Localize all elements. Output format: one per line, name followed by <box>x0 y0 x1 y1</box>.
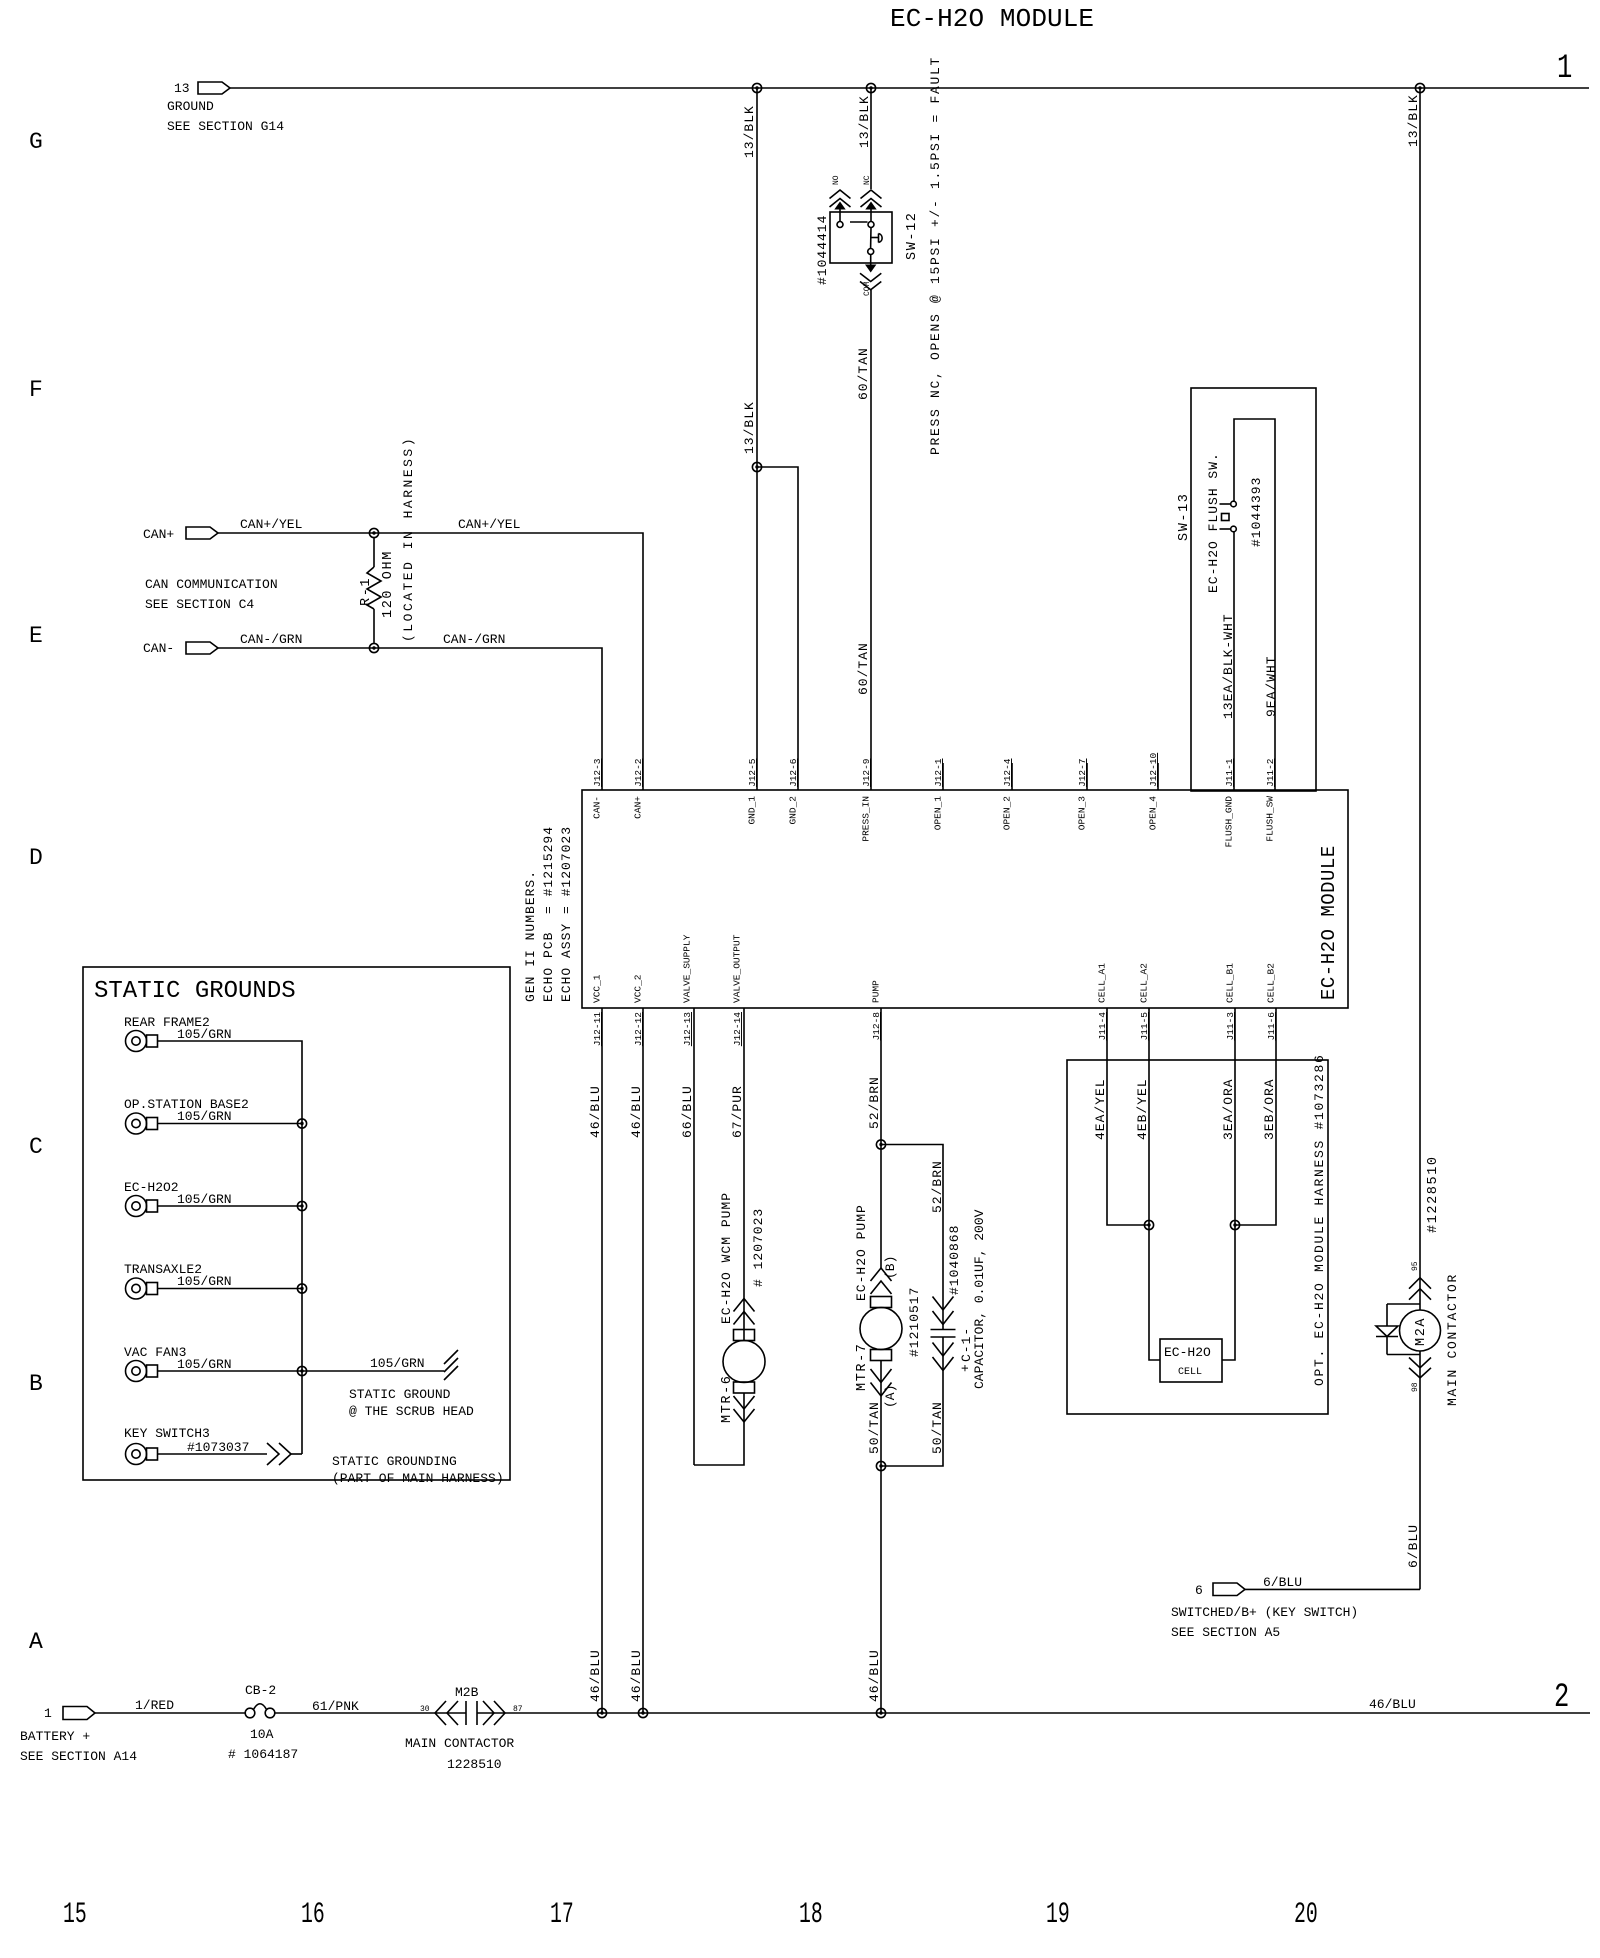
pin stub J12-7 <box>1077 758 1088 790</box>
connector flag CAN- <box>143 641 218 656</box>
svg-text:BATTERY +: BATTERY + <box>20 1729 90 1744</box>
svg-text:SEE SECTION G14: SEE SECTION G14 <box>167 119 284 134</box>
node: junction CAN+ at resistor <box>369 528 378 537</box>
svg-text:F: F <box>29 377 43 403</box>
label 98 <box>1411 1382 1420 1392</box>
wire: OP.STATION BASE2 ground <box>158 1123 303 1125</box>
svg-text:52/BRN: 52/BRN <box>867 1076 882 1129</box>
label C-1- and + <box>958 1327 974 1372</box>
pin GND_2 name <box>788 796 799 825</box>
wire: 13/BLK from top bus down to module pin J12-5 <box>756 88 758 790</box>
svg-text:EC-H2O FLUSH SW.: EC-H2O FLUSH SW. <box>1206 452 1221 593</box>
svg-text:J12-9: J12-9 <box>861 758 872 787</box>
connector chevrons below SW-12 COM <box>860 255 881 290</box>
column number 19 <box>1046 1897 1070 1931</box>
svg-text:M2B: M2B <box>455 1685 479 1700</box>
wire: TRANSAXLE2 ground <box>158 1288 303 1290</box>
svg-text:OPEN_4: OPEN_4 <box>1148 796 1159 831</box>
label EC-H2O PUMP <box>854 1204 869 1301</box>
label 3EB/ORA <box>1262 1078 1277 1140</box>
wire: 6/BLU from M2A down to key-switch feed <box>1419 1351 1421 1589</box>
label 1/RED <box>135 1698 174 1713</box>
row letter A <box>29 1629 43 1655</box>
svg-text:50/TAN: 50/TAN <box>867 1401 882 1454</box>
pin CAN- name <box>592 796 603 819</box>
page number 1 <box>1557 50 1572 88</box>
svg-text:105/GRN: 105/GRN <box>177 1274 232 1289</box>
label CAPACITOR, 0.01UF, 200V <box>972 1209 987 1389</box>
label 52/BRN (main) <box>867 1076 882 1129</box>
svg-text:3EA/ORA: 3EA/ORA <box>1221 1078 1236 1140</box>
node: junction TRANSAXLE2 <box>297 1284 306 1293</box>
label 13EA/BLK-WHT <box>1221 613 1236 719</box>
svg-text:OPEN_3: OPEN_3 <box>1077 796 1088 831</box>
svg-text:13/BLK: 13/BLK <box>742 105 757 158</box>
ring terminal KEY SWITCH3 <box>124 1426 249 1465</box>
label #1044414 <box>815 215 830 285</box>
wire: 46/BLU battery bus <box>477 1712 1590 1714</box>
label CAN-/GRN (left) <box>240 632 302 647</box>
svg-text:67/PUR: 67/PUR <box>730 1085 745 1138</box>
svg-text:MTR-7: MTR-7 <box>855 1342 870 1391</box>
wire: 1/RED battery feed <box>95 1712 245 1714</box>
diode across M2A coil <box>1376 1304 1420 1355</box>
ring terminal REAR FRAME2 <box>124 1015 232 1052</box>
note SWITCHED/B+ <box>1171 1605 1358 1640</box>
svg-text:95: 95 <box>1411 1261 1420 1271</box>
svg-text:J12-2: J12-2 <box>633 758 644 787</box>
svg-text:STATIC GROUNDING: STATIC GROUNDING <box>332 1454 457 1469</box>
svg-text:PRESS_IN: PRESS_IN <box>861 796 872 842</box>
label 52/BRN (branch) <box>930 1160 945 1213</box>
svg-text:13/BLK: 13/BLK <box>1406 94 1421 147</box>
label 46/BLU (pump wire) <box>867 1649 882 1702</box>
svg-text:SEE SECTION A14: SEE SECTION A14 <box>20 1749 137 1764</box>
svg-text:6/BLU: 6/BLU <box>1406 1524 1421 1568</box>
svg-text:J12-6: J12-6 <box>788 758 799 787</box>
svg-text:EC-H2O: EC-H2O <box>1164 1345 1211 1360</box>
wire: 60/TAN from SW-12 COM down to module pin J12-9 <box>870 290 872 790</box>
svg-text:CELL_A1: CELL_A1 <box>1097 963 1108 1003</box>
svg-text:105/GRN: 105/GRN <box>177 1192 232 1207</box>
page number 2 <box>1554 1679 1569 1717</box>
label 105/GRN (static ground run) <box>370 1356 425 1371</box>
pin J12-3 label <box>592 758 603 787</box>
pin CELL_A1 name <box>1097 963 1108 1003</box>
svg-text:46/BLU: 46/BLU <box>588 1085 603 1138</box>
pin PRESS_IN name <box>861 796 872 842</box>
svg-text:#1044414: #1044414 <box>815 215 830 285</box>
label SW-12 <box>905 211 920 260</box>
svg-text:(PART OF MAIN HARNESS): (PART OF MAIN HARNESS) <box>332 1471 504 1486</box>
svg-text:46/BLU: 46/BLU <box>629 1649 644 1702</box>
connector flag 6 (SWITCHED/B+) <box>1195 1583 1245 1598</box>
svg-text:OPEN_1: OPEN_1 <box>933 796 944 831</box>
label 120 OHM <box>381 550 396 618</box>
svg-text:EC-H2O2: EC-H2O2 <box>124 1180 179 1195</box>
svg-text:CELL_A2: CELL_A2 <box>1139 963 1150 1003</box>
wire: CAN-/GRN to module pin J12-3 <box>218 648 602 790</box>
svg-text:105/GRN: 105/GRN <box>177 1357 232 1372</box>
wire: EC-H2O2 ground <box>158 1205 303 1207</box>
svg-text:PRESS NC, OPENS @ 15PSI +/- 1.: PRESS NC, OPENS @ 15PSI +/- 1.5PSI = FAU… <box>928 56 943 455</box>
svg-text:VALVE_OUTPUT: VALVE_OUTPUT <box>732 934 743 1003</box>
svg-text:60/TAN: 60/TAN <box>856 347 871 400</box>
node: junction cell A <box>1144 1220 1153 1229</box>
note STATIC GROUND @ THE SCRUB HEAD <box>349 1387 474 1419</box>
svg-text:46/BLU: 46/BLU <box>867 1649 882 1702</box>
svg-text:KEY SWITCH3: KEY SWITCH3 <box>124 1426 210 1441</box>
pin J12-12 label <box>633 1012 644 1047</box>
svg-text:9EA/WHT: 9EA/WHT <box>1264 655 1279 717</box>
svg-text:CELL_B2: CELL_B2 <box>1266 963 1277 1003</box>
label MTR-7 <box>855 1342 870 1391</box>
motor MTR-7 (EC-H2O PUMP) <box>860 1297 902 1361</box>
svg-text:ECHO ASSY = #1207023: ECHO ASSY = #1207023 <box>559 826 574 1002</box>
pin CELL_B1 name <box>1225 963 1236 1003</box>
svg-text:1: 1 <box>44 1706 52 1721</box>
pressure switch SW-12 body <box>830 212 892 263</box>
pin CELL_A2 name <box>1139 963 1150 1003</box>
wire: 50/TAN below MTR-7 <box>880 1361 882 1467</box>
svg-text:# 1064187: # 1064187 <box>228 1747 298 1762</box>
label CAN+/YEL (left) <box>240 517 302 532</box>
node: junction pump/capacitor bottom <box>876 1461 885 1470</box>
svg-text:13/BLK: 13/BLK <box>857 95 872 148</box>
wire: 6/BLU horizontal run <box>1245 1588 1420 1590</box>
svg-text:CAN COMMUNICATION: CAN COMMUNICATION <box>145 577 278 592</box>
svg-text:GEN II NUMBERS.: GEN II NUMBERS. <box>523 870 538 1002</box>
pin stub J12-4 <box>1002 758 1013 790</box>
wire: 61/PNK from CB-2 to M2B <box>275 1712 466 1714</box>
svg-text:EC-H2O WCM PUMP: EC-H2O WCM PUMP <box>719 1192 734 1324</box>
row letter C <box>29 1134 43 1160</box>
label MTR-6 <box>720 1374 735 1423</box>
connector chevrons above MTR-6 <box>734 1299 755 1325</box>
pin J12-14 label <box>732 1012 743 1047</box>
svg-text:(A): (A) <box>883 1385 898 1408</box>
ground: static ground symbol at scrub head <box>444 1350 458 1380</box>
svg-text:STATIC GROUND: STATIC GROUND <box>349 1387 451 1402</box>
label 46/BLU (J12-12 upper) <box>629 1085 644 1138</box>
connector chevrons below MTR-7 <box>871 1369 892 1396</box>
node: junction pump/capacitor top <box>876 1140 885 1149</box>
connector flag CAN+ <box>143 527 218 542</box>
note GEN II NUMBERS <box>523 826 574 1002</box>
pin FLUSH_SW name <box>1265 796 1276 842</box>
svg-text:CAN-/GRN: CAN-/GRN <box>443 632 505 647</box>
svg-text:19: 19 <box>1046 1897 1070 1931</box>
note CAN COMMUNICATION <box>145 577 278 612</box>
pin VALVE_OUTPUT name <box>732 934 743 1003</box>
node: junction at x=1420 on top bus <box>1415 83 1424 92</box>
svg-text:PUMP: PUMP <box>871 980 882 1003</box>
pin J11-4 label <box>1097 1012 1108 1041</box>
wire: 13/BLK from top bus down to SW-12 NC <box>870 88 872 189</box>
svg-text:2: 2 <box>1554 1679 1569 1717</box>
label 60/TAN (upper) <box>856 347 871 400</box>
label 6/BLU (horizontal) <box>1263 1575 1302 1590</box>
row letter B <box>29 1371 43 1397</box>
label (LOCATED IN HARNESS) <box>401 436 416 642</box>
pin J11-3 label <box>1225 1012 1236 1041</box>
capacitor C-1 plates <box>931 1330 956 1338</box>
wire: 3EA/ORA from pin J11-3 to cell <box>1222 1008 1235 1360</box>
EC-H2O CELL box <box>1160 1339 1222 1382</box>
svg-text:SWITCHED/B+ (KEY SWITCH): SWITCHED/B+ (KEY SWITCH) <box>1171 1605 1358 1620</box>
wire: CAN+/YEL to module pin J12-2 <box>218 533 643 790</box>
svg-text:NC: NC <box>863 175 872 185</box>
row letter E <box>29 623 43 649</box>
label CAN+/YEL (right) <box>458 517 520 532</box>
svg-text:OPEN_2: OPEN_2 <box>1002 796 1013 831</box>
column number 15 <box>63 1897 87 1931</box>
svg-text:CELL: CELL <box>1178 1367 1202 1378</box>
node: junction CAN- at resistor <box>369 643 378 652</box>
node: junction J12-8 wire at bus <box>876 1708 885 1717</box>
svg-text:CAN+/YEL: CAN+/YEL <box>240 517 302 532</box>
svg-text:46/BLU: 46/BLU <box>588 1649 603 1702</box>
pin GND_1 name <box>747 796 758 825</box>
pin J12-11 label <box>592 1012 603 1047</box>
node: junction VAC FAN3 <box>297 1366 306 1375</box>
label 46/BLU (J12-11 upper) <box>588 1085 603 1138</box>
wire: 66/BLU from pin J12-13 down <box>693 1008 695 1465</box>
label (A) <box>883 1385 898 1408</box>
svg-text:EC-H2O MODULE: EC-H2O MODULE <box>1318 845 1340 1000</box>
contactor contact M2B (main contactor) <box>405 1685 523 1772</box>
pin J12-5 label <box>747 758 758 787</box>
label MAIN CONTACTOR (vertical) <box>1445 1273 1460 1406</box>
svg-text:A: A <box>29 1629 43 1655</box>
wire: capacitor branch bottom <box>881 1337 943 1466</box>
svg-text:30: 30 <box>420 1705 430 1714</box>
connector chevrons above C-1 <box>933 1297 954 1325</box>
svg-text:4EA/YEL: 4EA/YEL <box>1093 1078 1108 1140</box>
label #1040868 <box>947 1225 962 1295</box>
svg-text:CAPACITOR, 0.01UF, 200V: CAPACITOR, 0.01UF, 200V <box>972 1209 987 1389</box>
drawing title EC-H2O MODULE <box>890 4 1094 34</box>
node: junction J12-11 at bus <box>597 1708 606 1717</box>
connector chevrons below MTR-6 <box>734 1396 755 1422</box>
svg-text:10A: 10A <box>250 1727 274 1742</box>
svg-text:SW-12: SW-12 <box>905 211 920 260</box>
connector chevrons above SW-12 NO <box>830 190 851 222</box>
wire: top ground bus 13/BLK <box>230 87 1589 89</box>
motor MTR-6 (EC-H2O WCM PUMP) <box>723 1330 765 1394</box>
svg-text:#1044393: #1044393 <box>1249 477 1264 547</box>
svg-text:GND_2: GND_2 <box>788 796 799 825</box>
label CAN-/GRN (right) <box>443 632 505 647</box>
wire: 67/PUR from pin J12-14 down to MTR-6 <box>743 1008 745 1341</box>
flush switch SW-13 outer box <box>1191 388 1316 791</box>
svg-text:50/TAN: 50/TAN <box>930 1401 945 1454</box>
svg-text:#1073037: #1073037 <box>187 1440 249 1455</box>
circuit breaker CB-2 10A <box>228 1683 298 1762</box>
svg-text:6: 6 <box>1195 1583 1203 1598</box>
svg-text:+: + <box>958 1364 973 1372</box>
label 4EB/YEL <box>1135 1078 1150 1140</box>
svg-text:CAN-: CAN- <box>592 796 603 819</box>
note PRESS NC OPENS <box>928 56 943 455</box>
pin J11-1 label <box>1224 758 1235 787</box>
svg-text:J12-3: J12-3 <box>592 758 603 787</box>
label 9EA/WHT <box>1264 655 1279 717</box>
svg-text:18: 18 <box>799 1897 823 1931</box>
svg-text:FLUSH_GND: FLUSH_GND <box>1224 796 1235 848</box>
EC-H2O MODULE box <box>582 790 1348 1008</box>
svg-text:G: G <box>29 129 43 155</box>
node: junction at x=871 on top bus <box>866 83 875 92</box>
pin J11-5 label <box>1139 1012 1150 1041</box>
svg-text:CAN-/GRN: CAN-/GRN <box>240 632 302 647</box>
label EC-H2O MODULE (inside box) <box>1318 845 1340 1000</box>
svg-text:SW-13: SW-13 <box>1177 492 1192 541</box>
column number 16 <box>301 1897 325 1931</box>
svg-text:CAN+/YEL: CAN+/YEL <box>458 517 520 532</box>
svg-text:#1210517: #1210517 <box>907 1287 922 1357</box>
svg-text:20: 20 <box>1294 1897 1318 1931</box>
pin stub J12-1 <box>933 758 944 790</box>
pin J12-2 label <box>633 758 644 787</box>
ring terminal TRANSAXLE2 <box>124 1262 232 1299</box>
svg-text:J12-7: J12-7 <box>1077 758 1088 787</box>
svg-text:CAN+: CAN+ <box>633 796 644 819</box>
svg-text:MAIN CONTACTOR: MAIN CONTACTOR <box>405 1736 514 1751</box>
connector chevrons below C-1 <box>933 1343 954 1371</box>
ring terminal VAC FAN3 <box>124 1345 232 1382</box>
svg-text:E: E <box>29 623 43 649</box>
svg-text:R-1: R-1 <box>359 577 374 606</box>
node: junction OP.STATION <box>297 1119 306 1128</box>
label 50/TAN (branch) <box>930 1401 945 1454</box>
wire: 52/BRN from pin J12-8 down <box>880 1008 882 1268</box>
svg-text:J12-1: J12-1 <box>933 758 944 787</box>
svg-text:SEE SECTION C4: SEE SECTION C4 <box>145 597 254 612</box>
wire: 46/BLU from pin J12-12 to bus <box>642 1008 644 1713</box>
pin OPEN_4 name <box>1148 796 1159 831</box>
pin VCC_1 name <box>592 974 603 1003</box>
connector flag 1 (BATTERY +) <box>20 1706 137 1764</box>
column number 18 <box>799 1897 823 1931</box>
pin stub J12-10 <box>1148 752 1159 790</box>
svg-text:M2A: M2A <box>1414 1317 1429 1346</box>
row letter D <box>29 845 43 871</box>
wire: capacitor branch top <box>881 1145 943 1330</box>
pin VALVE_SUPPLY name <box>682 934 693 1003</box>
svg-text:105/GRN: 105/GRN <box>177 1027 232 1042</box>
wire: VAC FAN3 ground to static ground symbol <box>158 1370 445 1372</box>
wire: REAR FRAME2 ground <box>158 1041 303 1454</box>
label COM <box>863 281 872 296</box>
svg-text:#1040868: #1040868 <box>947 1225 962 1295</box>
row letter F <box>29 377 43 403</box>
svg-text:OPT. EC-H2O MODULE HARNESS #10: OPT. EC-H2O MODULE HARNESS #1073286 <box>1312 1053 1327 1386</box>
wire: 4EB/YEL from pin J11-5 to cell <box>1149 1008 1160 1360</box>
svg-text:105/GRN: 105/GRN <box>177 1109 232 1124</box>
node: junction at x=757 on top bus <box>752 83 761 92</box>
svg-text:@ THE SCRUB HEAD: @ THE SCRUB HEAD <box>349 1404 474 1419</box>
pin J12-6 label <box>788 758 799 787</box>
connector chevrons above MTR-7 <box>871 1268 892 1294</box>
node: junction J12-12 at bus <box>638 1708 647 1717</box>
svg-text:J12-10: J12-10 <box>1148 752 1159 787</box>
svg-text:(LOCATED IN HARNESS): (LOCATED IN HARNESS) <box>401 436 416 642</box>
svg-text:MTR-6: MTR-6 <box>720 1374 735 1423</box>
pin J11-6 label <box>1266 1012 1277 1041</box>
label 46/BLU (J12-12 lower) <box>629 1649 644 1702</box>
svg-text:98: 98 <box>1411 1382 1420 1392</box>
svg-text:1: 1 <box>1557 50 1572 88</box>
label 50/TAN (main) <box>867 1401 882 1454</box>
label 6/BLU (vertical) <box>1406 1524 1421 1568</box>
label #1228510 <box>1426 1155 1441 1233</box>
svg-text:13EA/BLK-WHT: 13EA/BLK-WHT <box>1221 613 1236 719</box>
node: junction at (757,467) <box>752 462 761 471</box>
label 13/BLK (wire 1420) <box>1406 94 1421 147</box>
svg-text:J12-4: J12-4 <box>1002 758 1013 787</box>
svg-text:13/BLK: 13/BLK <box>742 401 757 454</box>
note STATIC GROUNDING (PART OF MAIN HARNESS) <box>332 1454 504 1486</box>
OPT. EC-H2O MODULE HARNESS box <box>1067 1060 1328 1414</box>
svg-text:B: B <box>29 1371 43 1397</box>
connector chevrons above SW-12 NC <box>861 190 882 222</box>
svg-text:GND_1: GND_1 <box>747 796 758 825</box>
label 66/BLU <box>680 1085 695 1138</box>
ring terminal EC-H2O2 <box>124 1180 232 1217</box>
label 13/BLK (upper, wire 757) <box>742 105 757 158</box>
svg-text:D: D <box>29 845 43 871</box>
svg-text:105/GRN: 105/GRN <box>370 1356 425 1371</box>
pin OPEN_1 name <box>933 796 944 831</box>
label (B) <box>883 1256 898 1279</box>
svg-text:C: C <box>29 1134 43 1160</box>
svg-text:NO: NO <box>832 175 841 185</box>
connector chevrons above M2A <box>1409 1278 1431 1300</box>
svg-text:GROUND: GROUND <box>167 99 214 114</box>
wire: branch from (757,467) to module pin J12-6 <box>757 467 798 790</box>
row letter G <box>29 129 43 155</box>
pin J12-9 label <box>861 758 872 787</box>
label NO <box>832 175 841 185</box>
svg-text:VCC_1: VCC_1 <box>592 974 603 1003</box>
wire: 46/BLU from pin J12-11 to bus <box>601 1008 603 1713</box>
svg-text:3EB/ORA: 3EB/ORA <box>1262 1078 1277 1140</box>
connector chevrons below M2A <box>1409 1358 1431 1378</box>
label 46/BLU (J12-11 lower) <box>588 1649 603 1702</box>
column number 20 <box>1294 1897 1318 1931</box>
connector chevrons KEY SWITCH3 <box>267 1443 291 1465</box>
label 67/PUR <box>730 1085 745 1138</box>
pin CELL_B2 name <box>1266 963 1277 1003</box>
wire: KEY SWITCH3 ground <box>158 1453 303 1455</box>
svg-text:CELL_B1: CELL_B1 <box>1225 963 1236 1003</box>
svg-text:6/BLU: 6/BLU <box>1263 1575 1302 1590</box>
svg-text:J12-13: J12-13 <box>682 1012 693 1047</box>
wire: 46/BLU from pump junction down to battery bus <box>880 1466 882 1713</box>
label NC <box>863 175 872 185</box>
svg-text:J12-14: J12-14 <box>732 1012 743 1047</box>
svg-text:4EB/YEL: 4EB/YEL <box>1135 1078 1150 1140</box>
label 61/PNK <box>312 1699 359 1714</box>
pin OPEN_2 name <box>1002 796 1013 831</box>
svg-text:CAN+: CAN+ <box>143 527 174 542</box>
pin J11-2 label <box>1265 758 1276 787</box>
svg-text:# 1207023: # 1207023 <box>751 1208 766 1287</box>
coil M2A (main contactor coil) <box>1400 1310 1441 1351</box>
svg-text:46/BLU: 46/BLU <box>1369 1697 1416 1712</box>
label 60/TAN (lower) <box>856 642 871 695</box>
